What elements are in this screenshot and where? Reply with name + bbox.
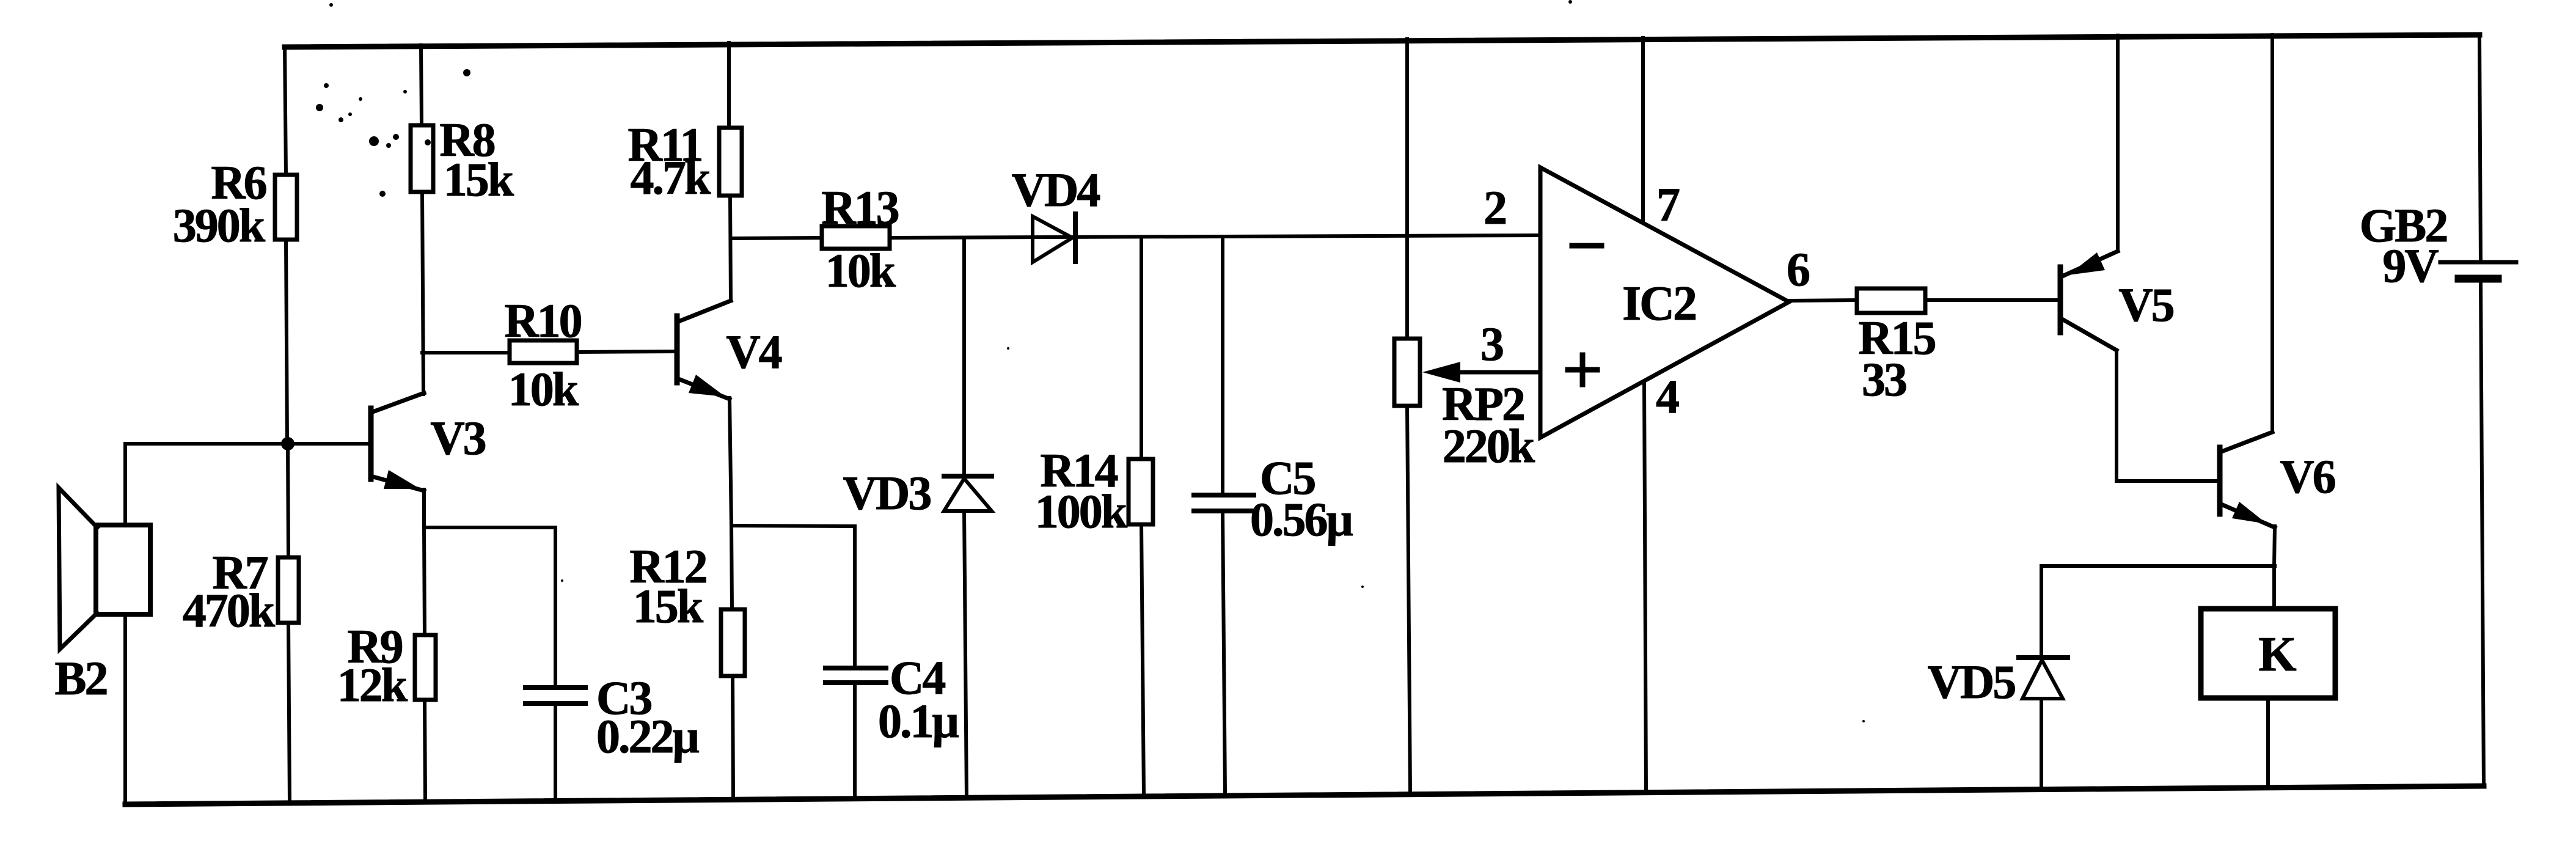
svg-text:IC2: IC2 bbox=[1622, 277, 1696, 331]
svg-text:K: K bbox=[2258, 628, 2296, 681]
svg-text:7: 7 bbox=[1656, 178, 1680, 231]
svg-text:R13: R13 bbox=[821, 181, 898, 234]
svg-text:V5: V5 bbox=[2118, 278, 2173, 331]
svg-text:V6: V6 bbox=[2280, 450, 2335, 503]
svg-text:10k: 10k bbox=[508, 362, 579, 416]
svg-text:12k: 12k bbox=[337, 658, 408, 711]
svg-text:0.1μ: 0.1μ bbox=[878, 694, 959, 747]
svg-text:V4: V4 bbox=[726, 325, 781, 378]
svg-text:390k: 390k bbox=[173, 199, 266, 252]
svg-text:V3: V3 bbox=[430, 411, 485, 465]
svg-text:15k: 15k bbox=[633, 579, 704, 633]
svg-text:VD5: VD5 bbox=[1928, 655, 2016, 708]
svg-text:470k: 470k bbox=[183, 584, 276, 637]
svg-text:4.7k: 4.7k bbox=[631, 151, 712, 204]
svg-text:4: 4 bbox=[1656, 370, 1679, 423]
svg-text:0.22μ: 0.22μ bbox=[596, 710, 700, 763]
svg-text:33: 33 bbox=[1862, 353, 1906, 406]
svg-text:VD3: VD3 bbox=[843, 466, 931, 520]
svg-text:0.56μ: 0.56μ bbox=[1250, 493, 1353, 546]
svg-text:3: 3 bbox=[1480, 317, 1503, 370]
svg-text:9V: 9V bbox=[2382, 239, 2439, 292]
svg-text:100k: 100k bbox=[1035, 485, 1128, 538]
svg-text:220k: 220k bbox=[1443, 419, 1535, 472]
svg-text:VD4: VD4 bbox=[1012, 163, 1100, 216]
svg-text:6: 6 bbox=[1787, 243, 1809, 296]
svg-text:10k: 10k bbox=[825, 244, 896, 297]
svg-text:2: 2 bbox=[1484, 181, 1506, 234]
svg-text:15k: 15k bbox=[444, 153, 514, 206]
svg-text:B2: B2 bbox=[54, 652, 106, 705]
svg-text:R10: R10 bbox=[504, 294, 581, 347]
